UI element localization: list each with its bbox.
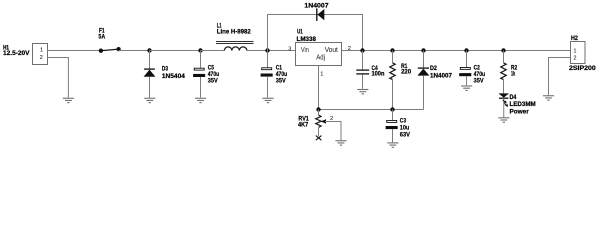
svg-text:D4: D4 [510, 94, 517, 101]
svg-text:D2: D2 [430, 65, 437, 72]
diode D2 [417, 51, 452, 110]
capacitor C2 [459, 51, 485, 86]
ground (C3) [387, 143, 398, 147]
capacitor C1 [261, 51, 288, 98]
node junction C5 [198, 48, 202, 52]
svg-text:Vout: Vout [325, 47, 338, 54]
svg-text:10u: 10u [400, 125, 410, 132]
LED arrows [503, 100, 507, 106]
connector H2 [569, 35, 596, 72]
wire H1 pin1 to fuse [48, 50, 101, 52]
diode D1 1N4007 bypass [304, 3, 329, 21]
svg-text:3: 3 [288, 46, 291, 52]
svg-text:35V: 35V [276, 77, 287, 84]
ground (H1 pin2) [63, 98, 74, 102]
svg-text:63V: 63V [400, 132, 411, 139]
node junction R2 [501, 48, 505, 52]
inductor L1 [216, 22, 254, 50]
svg-text:Vin: Vin [301, 47, 309, 54]
svg-text:2SIP200: 2SIP200 [569, 65, 596, 72]
node junction C2 [464, 48, 468, 52]
svg-text:4K7: 4K7 [298, 121, 309, 128]
wire C5 junction to L1 [201, 50, 225, 52]
capacitor C3 [386, 110, 411, 143]
svg-text:2: 2 [348, 46, 351, 52]
svg-text:Line H-8982: Line H-8982 [217, 28, 251, 35]
node junction C3 [390, 107, 394, 111]
svg-text:D3: D3 [162, 66, 169, 73]
svg-text:35V: 35V [208, 78, 219, 85]
LED D4 [498, 93, 535, 117]
regulator U1 LM338 [288, 29, 351, 78]
node junction D3 [147, 48, 151, 52]
wire Adj net line [319, 109, 424, 111]
resistor R2 [501, 51, 518, 94]
diode D3 [144, 51, 186, 98]
wire H1 pin2 to ground [48, 58, 69, 98]
svg-text:220: 220 [401, 69, 411, 76]
svg-text:100n: 100n [372, 71, 385, 78]
ground (C2) [461, 86, 472, 90]
svg-text:1: 1 [573, 49, 576, 55]
svg-text:Power: Power [510, 108, 530, 115]
ground (D4) [498, 118, 509, 122]
ground (H2 pin2) [543, 96, 554, 100]
resistor R1 [390, 51, 412, 110]
svg-text:1: 1 [320, 72, 323, 78]
svg-text:12.5-20V: 12.5-20V [3, 50, 30, 57]
node junction C4 / bypass-diode right leg [360, 48, 364, 52]
svg-text:C3: C3 [400, 118, 407, 125]
svg-text:5A: 5A [98, 34, 105, 41]
ground (RV1 wiper) [335, 141, 346, 145]
potentiometer RV1 [298, 110, 341, 141]
capacitor C4 [356, 51, 384, 89]
svg-text:35V: 35V [474, 78, 485, 85]
svg-text:1N4007: 1N4007 [304, 3, 329, 10]
svg-text:2: 2 [330, 116, 333, 122]
svg-text:1: 1 [40, 48, 43, 54]
RV1 wiper arrow [321, 119, 326, 123]
wire bypass loop (Vin to Vout over the top) [268, 15, 363, 51]
RV1 unconnected pin X [316, 136, 322, 141]
node junction D2 [421, 48, 425, 52]
ground (C1) [262, 98, 273, 102]
svg-text:H2: H2 [571, 35, 578, 42]
wire U1 Adj pin down [318, 66, 320, 110]
wire fuse to D3 junction [119, 50, 150, 52]
wire H2 pin2 to ground [549, 58, 571, 96]
node junction R1 [390, 48, 394, 52]
connector H1 [3, 44, 48, 65]
ground (C5) [195, 98, 206, 102]
capacitor C5 [193, 51, 219, 98]
node junction C1 / bypass-diode left leg [265, 48, 269, 52]
svg-text:1k: 1k [511, 70, 516, 77]
svg-text:2: 2 [573, 55, 576, 61]
svg-text:LED3MM: LED3MM [510, 101, 536, 108]
svg-text:2: 2 [40, 55, 43, 61]
node junction Adj / RV1 [316, 107, 320, 111]
wire L1 to U1 Vin [247, 50, 296, 52]
svg-text:1N5404: 1N5404 [162, 73, 186, 80]
wire U1 Vout rail to H2 [342, 50, 571, 52]
ground (D3) [144, 98, 155, 102]
ground (C4) [357, 90, 368, 94]
svg-text:U1: U1 [297, 29, 303, 36]
svg-text:LM338: LM338 [297, 36, 317, 43]
svg-text:1N4007: 1N4007 [430, 72, 452, 79]
fuse F1 [98, 28, 120, 53]
svg-text:Adj: Adj [316, 55, 325, 62]
wire D3 junction to C5 [150, 50, 201, 52]
